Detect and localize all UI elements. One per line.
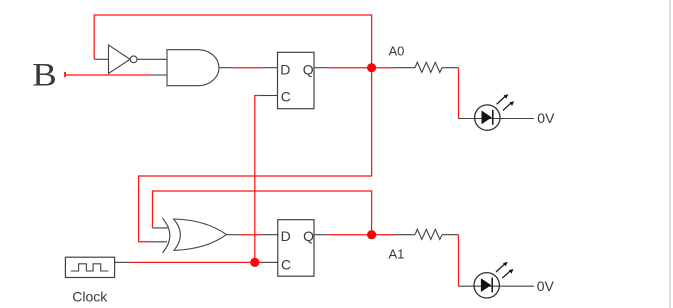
wire stub XOR lower input xyxy=(148,241,167,243)
wire stub clock output xyxy=(115,261,131,263)
svg-text:0V: 0V xyxy=(537,278,555,294)
label B xyxy=(32,58,57,94)
svg-text:D: D xyxy=(281,228,291,244)
wire stub C input U5 xyxy=(262,261,278,263)
AND gate U2 xyxy=(167,50,219,86)
node A0 xyxy=(367,63,376,72)
wire XOR output stub xyxy=(227,234,240,236)
LED D1 xyxy=(459,94,535,130)
svg-text:A0: A0 xyxy=(389,43,405,58)
wire feedback from node A0 down to XOR lower input xyxy=(139,68,372,242)
wire input B to AND gate xyxy=(65,74,152,76)
wire clock to C inputs xyxy=(131,261,263,263)
svg-text:C: C xyxy=(281,256,291,272)
wire stub D input U3 xyxy=(262,67,278,69)
clock source CLK xyxy=(65,257,114,277)
wire resistor R2 down to LED D2 xyxy=(458,235,460,287)
wire Q output U3 to resistor R1 xyxy=(328,67,395,69)
svg-text:D: D xyxy=(280,61,290,77)
wire stub Q output U5 xyxy=(314,234,328,236)
wire XOR output to D input U5 xyxy=(239,234,261,236)
wire resistor R1 down to LED D1 xyxy=(458,68,460,119)
svg-text:Q: Q xyxy=(303,228,314,244)
wire stub B into AND gate xyxy=(152,74,168,76)
inverter U1 xyxy=(109,45,138,74)
svg-text:C: C xyxy=(281,89,291,105)
node A1 xyxy=(367,230,376,239)
svg-text:B: B xyxy=(32,58,57,94)
svg-text:A1: A1 xyxy=(389,246,405,261)
LED D2 xyxy=(459,262,535,298)
XOR gate U4 xyxy=(163,218,227,253)
label A1 xyxy=(389,246,405,261)
label 0V (bottom) xyxy=(537,278,555,294)
label 0V (top) xyxy=(537,110,555,126)
wire stub C input U3 xyxy=(262,95,278,97)
wire feedback from node A1 to XOR upper input xyxy=(153,191,372,235)
svg-text:0V: 0V xyxy=(537,110,555,126)
wire C input U3 down to clock junction xyxy=(255,96,262,263)
node clock junction xyxy=(250,258,259,267)
wire stub XOR upper input xyxy=(153,227,170,229)
right border line xyxy=(669,0,671,308)
wire inverter output to AND gate xyxy=(137,58,168,60)
svg-text:Clock: Clock xyxy=(72,289,108,305)
resistor R1 xyxy=(395,62,459,72)
wire feedback from node A0 to inverter input (top loop) xyxy=(94,15,371,68)
wire stub D input U5 xyxy=(261,234,278,236)
wire stub into inverter input xyxy=(94,58,108,60)
D flip-flop U5 xyxy=(278,220,314,277)
D flip-flop U3 xyxy=(278,52,315,108)
resistor R2 xyxy=(394,229,459,239)
wire AND output to D input of U3 xyxy=(232,67,261,69)
label Clock xyxy=(72,289,108,305)
pin marker on input B xyxy=(64,72,66,77)
wire stub Q output U3 xyxy=(314,67,328,69)
label A0 xyxy=(389,43,405,58)
wire AND output stub xyxy=(219,67,232,69)
svg-text:Q: Q xyxy=(303,61,314,77)
wire Q output U5 to resistor R2 xyxy=(328,234,394,236)
